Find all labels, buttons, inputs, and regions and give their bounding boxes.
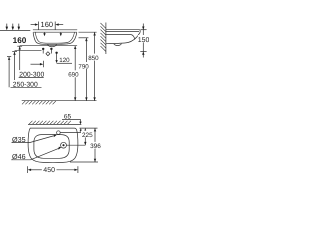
side view wall xyxy=(101,23,106,55)
node: three supply arrows top-left xyxy=(6,24,21,31)
dimension 160 (top, over basin) xyxy=(31,20,64,29)
floor hatching xyxy=(22,101,56,104)
dimension 200-300 vertical leader xyxy=(17,46,22,77)
drain diamond xyxy=(46,52,50,56)
basin front view xyxy=(33,30,77,47)
dimension 250-300 vertical leader xyxy=(12,52,17,88)
wall hatching (plan) xyxy=(29,121,71,124)
svg-text:160: 160 xyxy=(41,20,54,29)
svg-text:160: 160 xyxy=(13,36,27,45)
dimension 396 xyxy=(90,128,101,162)
svg-text:450: 450 xyxy=(43,167,55,174)
supply dot C with 120 stub xyxy=(55,52,57,64)
label 200-300 xyxy=(19,70,45,78)
svg-text:150: 150 xyxy=(138,37,149,44)
drain dome under bowl xyxy=(48,44,57,47)
dimension 690 xyxy=(68,46,79,101)
dimension 850 xyxy=(88,32,99,100)
svg-text:225: 225 xyxy=(82,132,93,139)
tap hole arrows on deck xyxy=(44,33,46,34)
dimension 65 xyxy=(62,113,82,132)
svg-text:396: 396 xyxy=(90,143,101,150)
arrow to centerline (200-300) xyxy=(31,61,44,68)
dimension 120 xyxy=(57,57,72,64)
supply dot A xyxy=(42,48,44,54)
supply dot B xyxy=(50,48,52,54)
bottom extension line (plan) xyxy=(70,161,98,163)
wall line (plan) xyxy=(28,123,81,125)
drain dome side xyxy=(114,44,121,46)
dimension 150 (side view height) xyxy=(138,24,150,58)
basin plan inner bowl xyxy=(34,135,69,159)
label D46 with leader xyxy=(11,147,61,161)
dimension 450 xyxy=(28,166,78,174)
reference line A (underside) xyxy=(20,45,77,47)
third leader line xyxy=(7,57,11,88)
dimension 790 xyxy=(78,38,89,101)
wire: mirror line top-left xyxy=(0,29,30,31)
rim extension line right xyxy=(79,31,97,33)
svg-text:790: 790 xyxy=(78,63,89,70)
svg-text:690: 690 xyxy=(68,72,79,79)
reference line B (supply) xyxy=(15,50,42,52)
svg-text:120: 120 xyxy=(59,57,70,64)
label 250-300 xyxy=(11,80,42,88)
floor line xyxy=(22,100,97,102)
label D35 with leader xyxy=(12,134,57,144)
dimension 225 xyxy=(81,128,93,145)
svg-text:850: 850 xyxy=(88,55,99,62)
tap hole line to 225 xyxy=(60,132,85,134)
top extension line (plan) xyxy=(80,127,98,129)
790 extension line xyxy=(79,37,89,39)
basin plan outer outline xyxy=(28,128,78,162)
drain line to 225 xyxy=(66,144,85,146)
drain plan xyxy=(61,142,67,148)
tap hole plan xyxy=(57,131,61,135)
basin side view profile xyxy=(106,30,140,46)
